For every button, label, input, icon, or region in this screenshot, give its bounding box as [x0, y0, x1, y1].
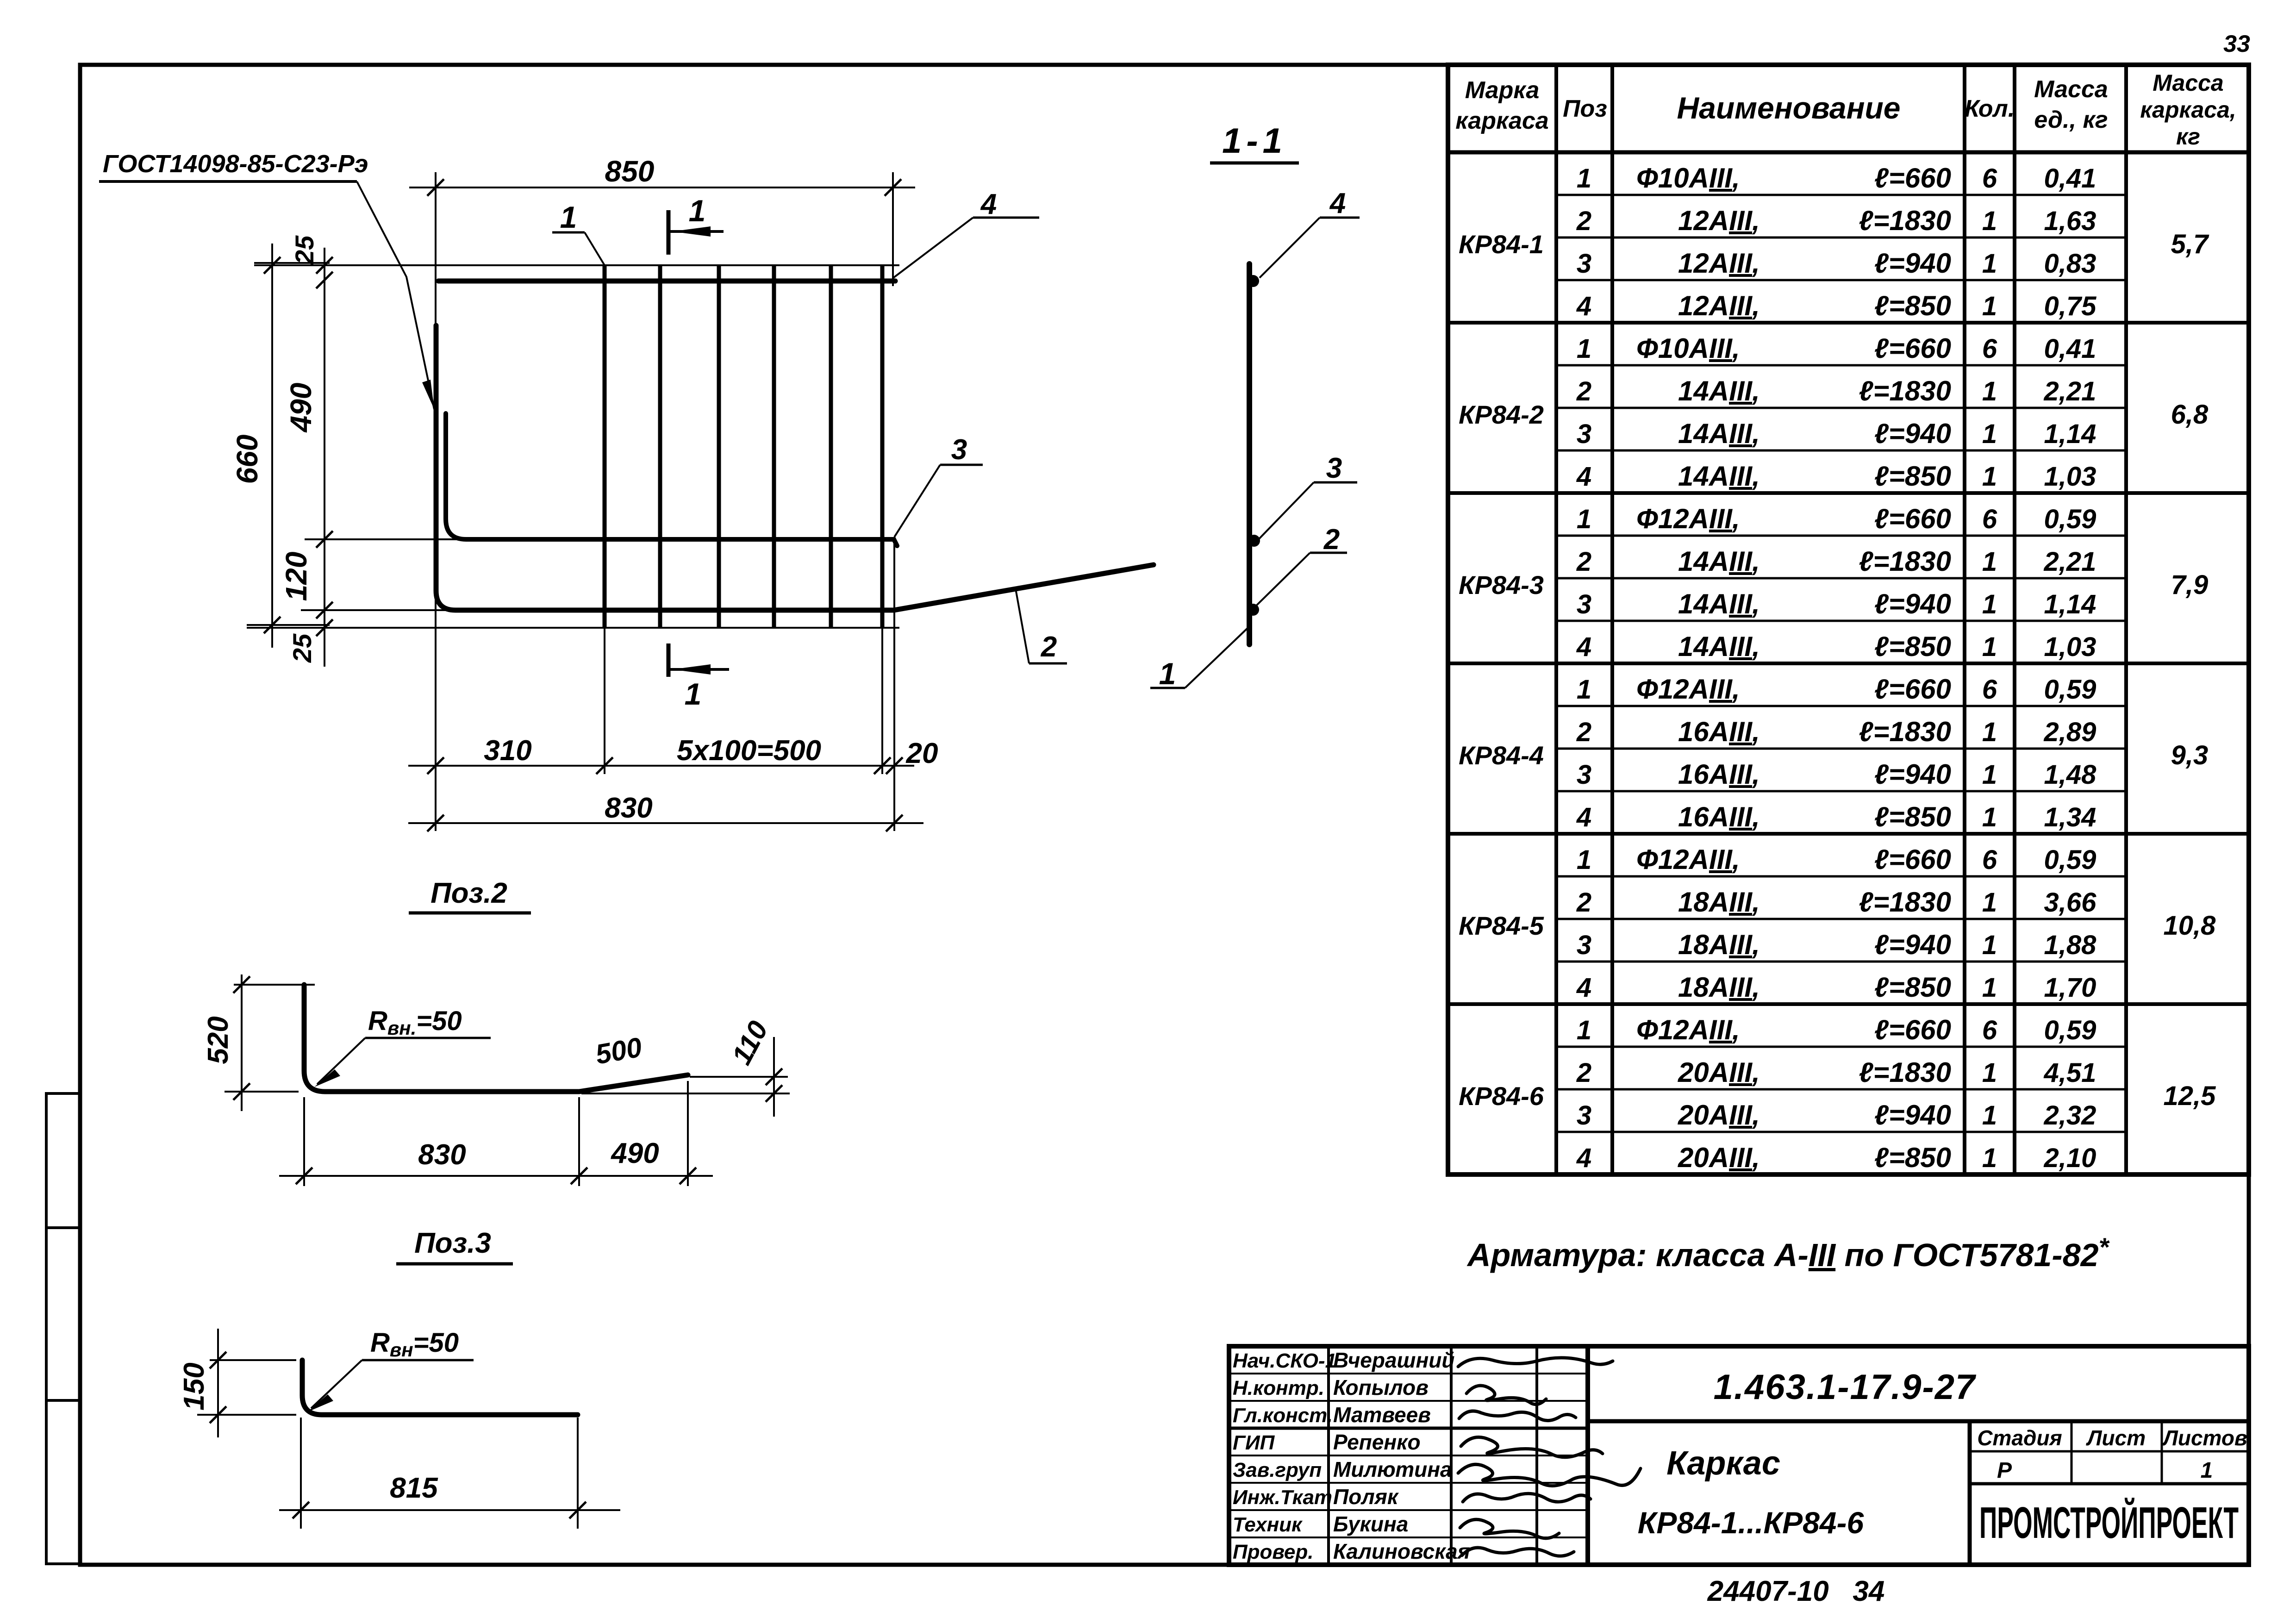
pos.3 dim 815: [279, 1418, 620, 1529]
svg-text:ℓ=940: ℓ=940: [1874, 248, 1951, 279]
section dot pos.4: [1247, 275, 1259, 287]
pos.2 dim 110: [581, 1016, 790, 1117]
svg-text:1: 1: [1982, 760, 1997, 790]
svg-text:1: 1: [1577, 163, 1591, 194]
svg-text:14АIII,: 14АIII,: [1678, 375, 1760, 406]
svg-text:1: 1: [1982, 547, 1997, 577]
svg-text:Н.контр.: Н.контр.: [1233, 1377, 1324, 1399]
svg-text:110: 110: [726, 1016, 774, 1069]
svg-text:Гл.конст.: Гл.конст.: [1233, 1404, 1333, 1427]
table group КР84-6: [1459, 1014, 2216, 1173]
rebar pos.4 top bar l=850: [438, 279, 895, 284]
svg-text:2: 2: [1576, 547, 1591, 577]
table group КР84-5: [1459, 844, 2216, 1003]
svg-text:16АIII,: 16АIII,: [1678, 759, 1760, 790]
svg-text:ℓ=850: ℓ=850: [1874, 290, 1951, 321]
svg-text:3: 3: [1577, 760, 1591, 790]
svg-text:830: 830: [605, 792, 652, 824]
table group КР84-4: [1459, 674, 2208, 832]
svg-text:Стадия: Стадия: [1977, 1426, 2062, 1450]
svg-text:ℓ=1830: ℓ=1830: [1859, 375, 1951, 406]
svg-text:ℓ=940: ℓ=940: [1874, 929, 1951, 960]
section dot pos.2: [1247, 604, 1259, 616]
svg-text:1: 1: [1982, 802, 1997, 832]
svg-text:1: 1: [685, 677, 702, 711]
svg-text:12,5: 12,5: [2164, 1081, 2216, 1111]
pos.3 detail bar: [302, 1360, 578, 1415]
table group КР84-1: [1459, 162, 2209, 321]
svg-text:33: 33: [2223, 31, 2250, 57]
svg-text:6,8: 6,8: [2171, 400, 2209, 430]
svg-text:Р: Р: [1997, 1458, 2012, 1483]
svg-text:1,14: 1,14: [2044, 589, 2096, 619]
rebar pos.2 bar (vertical leg, bottom run, bent tail): [436, 325, 1154, 610]
svg-text:Калиновская: Калиновская: [1333, 1539, 1470, 1563]
signatures (handwritten squiggles): [1458, 1358, 1641, 1556]
svg-text:1: 1: [1982, 717, 1997, 747]
pos.2 label Rvn=50: [314, 1006, 491, 1087]
svg-text:кг: кг: [2176, 124, 2200, 150]
svg-text:4: 4: [1576, 632, 1591, 662]
svg-text:2: 2: [1576, 206, 1591, 236]
list/listov divider: [2161, 1421, 2163, 1484]
svg-text:1: 1: [1982, 1143, 1997, 1173]
svg-text:ℓ=850: ℓ=850: [1874, 631, 1951, 662]
pos.3 dim 150: [178, 1329, 296, 1437]
svg-text:14АIII,: 14АIII,: [1678, 631, 1760, 662]
svg-text:4: 4: [1576, 973, 1591, 1003]
svg-text:1: 1: [1982, 887, 1997, 918]
specification table outer border: [1448, 65, 2249, 1174]
title block main divider: [1585, 1346, 1590, 1565]
svg-text:Масса: Масса: [2152, 70, 2224, 96]
svg-text:18АIII,: 18АIII,: [1678, 972, 1760, 1003]
svg-text:Ф12АIII,: Ф12АIII,: [1636, 1014, 1740, 1045]
svg-text:4: 4: [1576, 1143, 1591, 1173]
svg-text:25: 25: [290, 235, 319, 265]
svg-text:1: 1: [1982, 1100, 1997, 1131]
svg-text:20АIII,: 20АIII,: [1678, 1099, 1760, 1131]
svg-text:12АIII,: 12АIII,: [1678, 290, 1760, 321]
svg-text:1: 1: [1982, 249, 1997, 279]
table header bottom line: [1448, 150, 2249, 155]
svg-text:ℓ=850: ℓ=850: [1874, 461, 1951, 492]
svg-text:6: 6: [1982, 845, 1997, 875]
svg-text:10,8: 10,8: [2164, 911, 2216, 941]
svg-text:7,9: 7,9: [2171, 570, 2209, 600]
svg-text:500: 500: [593, 1031, 644, 1070]
svg-text:9,3: 9,3: [2171, 740, 2209, 770]
svg-text:ед., кг: ед., кг: [2034, 106, 2108, 133]
extension line left (x=941): [435, 198, 437, 831]
svg-text:3: 3: [1577, 249, 1591, 279]
svg-text:6: 6: [1982, 504, 1997, 534]
svg-text:6: 6: [1982, 675, 1997, 705]
svg-text:Листов: Листов: [2162, 1426, 2247, 1450]
svg-text:ℓ=850: ℓ=850: [1874, 972, 1951, 1003]
svg-text:1: 1: [1577, 845, 1591, 875]
svg-text:Марка: Марка: [1465, 77, 1540, 104]
svg-text:КР84-5: КР84-5: [1459, 911, 1544, 940]
svg-text:КР84-6: КР84-6: [1459, 1081, 1544, 1111]
svg-text:14АIII,: 14АIII,: [1678, 461, 1760, 492]
svg-text:1: 1: [1982, 291, 1997, 321]
promstroyproekt box top line: [1970, 1482, 2249, 1486]
svg-text:1: 1: [1159, 656, 1176, 691]
svg-text:830: 830: [418, 1139, 466, 1171]
svg-text:каркаса: каркаса: [1455, 107, 1548, 134]
svg-text:3: 3: [1577, 930, 1591, 960]
svg-text:Милютина: Милютина: [1333, 1457, 1452, 1481]
dimension chain 25/490/120/25 (left inner): [280, 235, 468, 667]
svg-text:6: 6: [1982, 334, 1997, 364]
svg-text:1,14: 1,14: [2044, 419, 2096, 449]
table group КР84-2: [1459, 333, 2209, 492]
svg-text:1: 1: [1577, 504, 1591, 534]
svg-text:1,88: 1,88: [2044, 930, 2097, 960]
svg-text:1: 1: [1982, 632, 1997, 662]
leader label 4 (top bar): [893, 188, 1039, 278]
extension line right lower (x=1932): [893, 539, 895, 831]
svg-text:20: 20: [906, 737, 938, 769]
table column line Poz|Naimenovanie: [1610, 65, 1614, 1174]
svg-text:6: 6: [1982, 163, 1997, 194]
svg-text:ГИП: ГИП: [1233, 1431, 1275, 1454]
svg-text:16АIII,: 16АIII,: [1678, 801, 1760, 832]
table group separator lines: [1448, 323, 2249, 1004]
svg-text:14АIII,: 14АIII,: [1678, 546, 1760, 577]
svg-text:ℓ=1830: ℓ=1830: [1859, 205, 1951, 236]
svg-text:КР84-4: КР84-4: [1459, 741, 1544, 770]
svg-text:4,51: 4,51: [2044, 1058, 2096, 1088]
svg-text:815: 815: [390, 1472, 438, 1504]
svg-text:1: 1: [1982, 376, 1997, 406]
svg-text:1,03: 1,03: [2044, 462, 2096, 492]
svg-text:Копылов: Копылов: [1333, 1375, 1429, 1399]
svg-text:Арматура: класса А-III по ГОС: Арматура: класса А-III по ГОСТ5781-82*: [1466, 1232, 2110, 1273]
section title 1-1: [1210, 121, 1299, 163]
svg-text:25: 25: [287, 633, 317, 663]
title block outer border: [1229, 1346, 2249, 1565]
svg-text:12АIII,: 12АIII,: [1678, 248, 1760, 279]
svg-text:1,03: 1,03: [2044, 632, 2096, 662]
table column line Massa ed|Massa karkasa: [2124, 65, 2128, 1174]
svg-text:Rвн.=50: Rвн.=50: [368, 1006, 462, 1039]
section leader 2: [1255, 524, 1347, 606]
svg-text:ℓ=660: ℓ=660: [1874, 674, 1951, 705]
dimension 850 (top): [409, 155, 915, 204]
svg-text:Провер.: Провер.: [1233, 1541, 1313, 1563]
svg-text:Лист: Лист: [2086, 1426, 2146, 1450]
svg-text:14АIII,: 14АIII,: [1678, 588, 1760, 619]
svg-text:20АIII,: 20АIII,: [1678, 1057, 1760, 1088]
left margin box 1: [46, 1093, 80, 1228]
svg-text:0,41: 0,41: [2044, 163, 2096, 194]
rebar pos.3 bar (short leg and middle run): [446, 413, 897, 546]
top extension line y=573: [254, 264, 899, 266]
section mark 1 (top): [668, 194, 724, 255]
svg-text:14АIII,: 14АIII,: [1678, 418, 1760, 449]
svg-text:520: 520: [202, 1016, 234, 1064]
svg-text:КР84-2: КР84-2: [1459, 400, 1544, 429]
svg-text:2,10: 2,10: [2044, 1143, 2096, 1173]
svg-text:ПРОМСТРОЙПРОЕКТ: ПРОМСТРОЙПРОЕКТ: [1979, 1497, 2239, 1548]
title block column line (names|signatures): [1450, 1346, 1453, 1565]
table column line Naimenovanie|Kol: [1963, 65, 1966, 1174]
svg-text:ℓ=1830: ℓ=1830: [1859, 887, 1951, 918]
svg-text:Наименование: Наименование: [1677, 91, 1901, 125]
svg-text:1: 1: [1982, 206, 1997, 236]
svg-text:ℓ=660: ℓ=660: [1874, 503, 1951, 534]
leader label 1 (vertical bars, top): [552, 200, 605, 265]
pos.2 dim 520: [202, 974, 315, 1111]
svg-text:2: 2: [1576, 717, 1591, 747]
leader label 3 (middle bar): [894, 434, 983, 537]
svg-text:3: 3: [1577, 589, 1591, 619]
svg-text:каркаса,: каркаса,: [2140, 97, 2236, 123]
svg-text:ℓ=850: ℓ=850: [1874, 801, 1951, 832]
svg-text:2: 2: [1323, 524, 1340, 556]
svg-text:Каркас: Каркас: [1666, 1445, 1780, 1482]
svg-text:Зав.груп: Зав.груп: [1233, 1459, 1322, 1481]
table header texts: [1455, 70, 2236, 150]
svg-text:1: 1: [1982, 930, 1997, 960]
svg-text:1: 1: [1982, 462, 1997, 492]
svg-text:3: 3: [1577, 419, 1591, 449]
svg-text:ℓ=660: ℓ=660: [1874, 333, 1951, 364]
svg-text:1: 1: [560, 200, 577, 234]
svg-text:0,83: 0,83: [2044, 249, 2096, 279]
svg-text:4: 4: [1576, 462, 1591, 492]
svg-text:Rвн=50: Rвн=50: [370, 1328, 459, 1361]
section bar (pos.1 bar seen in elevation): [1247, 264, 1252, 644]
stadia/list divider: [2071, 1421, 2073, 1484]
pos.2 dims 830 and 490: [279, 1081, 713, 1186]
svg-text:0,75: 0,75: [2044, 291, 2097, 321]
section leader 4: [1260, 187, 1360, 278]
svg-text:Матвеев: Матвеев: [1333, 1403, 1431, 1427]
svg-text:ℓ=660: ℓ=660: [1874, 1014, 1951, 1045]
svg-text:КР84-1: КР84-1: [1459, 230, 1544, 259]
svg-text:1,63: 1,63: [2044, 206, 2096, 236]
svg-text:1,48: 1,48: [2044, 760, 2097, 790]
svg-text:150: 150: [178, 1362, 210, 1410]
svg-text:6: 6: [1982, 1015, 1997, 1045]
table group КР84-3: [1459, 503, 2208, 662]
svg-text:2: 2: [1576, 887, 1591, 918]
svg-text:Репенко: Репенко: [1333, 1430, 1421, 1454]
svg-text:1: 1: [689, 194, 706, 228]
svg-text:ℓ=1830: ℓ=1830: [1859, 546, 1951, 577]
svg-text:Инж.Ткат: Инж.Ткат: [1233, 1486, 1332, 1509]
svg-text:5x100=500: 5x100=500: [677, 735, 821, 767]
svg-text:1,70: 1,70: [2044, 973, 2096, 1003]
svg-text:20АIII,: 20АIII,: [1678, 1142, 1760, 1173]
table thin row lines: [1556, 195, 2126, 1132]
svg-text:ℓ=940: ℓ=940: [1874, 588, 1951, 619]
svg-text:0,59: 0,59: [2044, 1015, 2096, 1045]
svg-text:Ф10АIII,: Ф10АIII,: [1636, 162, 1740, 194]
svg-text:4: 4: [1329, 187, 1346, 219]
svg-text:120: 120: [280, 552, 313, 601]
svg-text:18АIII,: 18АIII,: [1678, 887, 1760, 918]
title block column line (titles|names): [1327, 1346, 1330, 1565]
svg-text:0,59: 0,59: [2044, 675, 2096, 705]
svg-text:3: 3: [1577, 1100, 1591, 1131]
svg-text:1: 1: [2201, 1458, 2213, 1483]
section leader 3: [1258, 452, 1357, 540]
svg-text:12АIII,: 12АIII,: [1678, 205, 1760, 236]
svg-text:КР84-3: КР84-3: [1459, 570, 1544, 600]
svg-text:0,59: 0,59: [2044, 504, 2096, 534]
svg-text:Ф12АIII,: Ф12АIII,: [1636, 844, 1740, 875]
pos.3 label Rvn=50: [307, 1328, 474, 1412]
svg-text:Ф12АIII,: Ф12АIII,: [1636, 503, 1740, 534]
title block staff names: [1233, 1348, 1470, 1563]
dimension 660 (left outer): [231, 244, 330, 648]
leader label 2 (bottom bar): [1016, 589, 1067, 663]
svg-text:Поз.2: Поз.2: [430, 877, 507, 909]
svg-text:ℓ=660: ℓ=660: [1874, 162, 1951, 194]
svg-text:1: 1: [1982, 973, 1997, 1003]
dimension 310 / 5x100=500 / 20 (bottom chain): [408, 628, 938, 774]
stadia header underline: [1970, 1450, 2249, 1453]
svg-text:ℓ=940: ℓ=940: [1874, 418, 1951, 449]
table column line Kol|Massa ed: [2013, 65, 2016, 1174]
svg-text:490: 490: [284, 383, 318, 433]
svg-text:660: 660: [231, 435, 264, 484]
svg-text:ℓ=850: ℓ=850: [1874, 1142, 1951, 1173]
svg-text:5,7: 5,7: [2171, 229, 2209, 259]
svg-text:Техник: Техник: [1233, 1513, 1303, 1536]
svg-text:Поз: Поз: [1563, 95, 1607, 122]
svg-text:2,21: 2,21: [2044, 376, 2096, 406]
svg-text:ℓ=940: ℓ=940: [1874, 759, 1951, 790]
svg-text:Ф12АIII,: Ф12АIII,: [1636, 674, 1740, 705]
svg-text:1-1: 1-1: [1222, 121, 1287, 161]
left margin box 2: [46, 1228, 80, 1400]
svg-text:0,59: 0,59: [2044, 845, 2096, 875]
svg-text:0,41: 0,41: [2044, 334, 2096, 364]
svg-text:490: 490: [610, 1137, 659, 1169]
svg-text:ГОСТ14098-85-С23-Рэ: ГОСТ14098-85-С23-Рэ: [103, 150, 368, 178]
title block staff row lines: [1229, 1374, 1588, 1537]
svg-text:Ф10АIII,: Ф10АIII,: [1636, 333, 1740, 364]
svg-text:Кол.: Кол.: [1965, 95, 2015, 122]
title block column line (signatures|dates): [1535, 1346, 1538, 1565]
svg-text:ℓ=1830: ℓ=1830: [1859, 1057, 1951, 1088]
svg-text:1: 1: [1982, 1058, 1997, 1088]
svg-text:Масса: Масса: [2034, 76, 2108, 103]
weld designation GOST14098-85-C23-Re with leader: [99, 150, 434, 409]
svg-text:КР84-1...КР84-6: КР84-1...КР84-6: [1638, 1505, 1865, 1540]
svg-text:2,89: 2,89: [2044, 717, 2096, 747]
svg-text:3: 3: [1326, 452, 1342, 484]
svg-text:2,32: 2,32: [2044, 1100, 2096, 1131]
svg-text:Букина: Букина: [1333, 1512, 1408, 1536]
svg-text:2,21: 2,21: [2044, 547, 2096, 577]
svg-text:1: 1: [1982, 589, 1997, 619]
svg-text:3,66: 3,66: [2044, 887, 2097, 918]
svg-text:4: 4: [980, 188, 997, 220]
extension line right upper (x=1929): [892, 198, 894, 286]
svg-text:ℓ=940: ℓ=940: [1874, 1099, 1951, 1131]
dimension 830 (bottom outer): [408, 792, 923, 831]
pos.2 detail title: [409, 877, 531, 913]
svg-text:3: 3: [951, 434, 967, 466]
rebar pos.1 vertical bars (6 pcs): [605, 265, 882, 628]
svg-text:1: 1: [1577, 334, 1591, 364]
svg-text:1.463.1-17.9-27: 1.463.1-17.9-27: [1714, 1368, 1977, 1407]
svg-text:ℓ=660: ℓ=660: [1874, 844, 1951, 875]
svg-text:4: 4: [1576, 291, 1591, 321]
svg-text:Поляк: Поляк: [1333, 1485, 1399, 1509]
svg-text:1: 1: [1577, 675, 1591, 705]
svg-text:1,34: 1,34: [2044, 802, 2096, 832]
bottom extension line y=1356: [247, 627, 899, 629]
svg-text:24407-10 34: 24407-10 34: [1707, 1575, 1885, 1607]
section mark 1 (bottom): [668, 643, 729, 711]
svg-text:Нач.СКО-1: Нач.СКО-1: [1233, 1349, 1336, 1372]
svg-text:18АIII,: 18АIII,: [1678, 929, 1760, 960]
section dot pos.3: [1248, 535, 1260, 547]
svg-text:2: 2: [1041, 631, 1057, 663]
svg-text:Вчерашний: Вчерашний: [1333, 1348, 1454, 1372]
table column line Marka|Poz: [1554, 65, 1558, 1174]
pos.2 detail bar: [304, 985, 688, 1092]
svg-text:1: 1: [1982, 419, 1997, 449]
svg-text:310: 310: [484, 735, 531, 767]
doc number box bottom line: [1588, 1419, 2249, 1424]
svg-text:ℓ=1830: ℓ=1830: [1859, 716, 1951, 747]
section leader 1: [1150, 627, 1248, 691]
pos.3 detail title: [396, 1227, 513, 1264]
svg-text:Поз.3: Поз.3: [414, 1227, 491, 1259]
svg-text:1: 1: [1577, 1015, 1591, 1045]
svg-text:4: 4: [1576, 802, 1591, 832]
svg-text:850: 850: [605, 155, 655, 188]
svg-text:2: 2: [1576, 1058, 1591, 1088]
svg-text:2: 2: [1576, 376, 1591, 406]
stadia column divider: [1968, 1421, 1972, 1565]
left margin box 3: [46, 1400, 80, 1564]
svg-text:16АIII,: 16АIII,: [1678, 716, 1760, 747]
